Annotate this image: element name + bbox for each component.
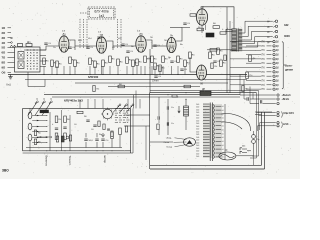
feeder wire y92.7 (150, 92, 257, 94)
antenna zigzag (10, 45, 16, 48)
svg-text:1б0: 1б0 (196, 140, 199, 142)
resistor R23 (217, 48, 220, 55)
resistor R18 (162, 56, 165, 63)
resistor R24 (220, 60, 223, 67)
svg-text:1б0: 1б0 (196, 112, 199, 114)
svg-text:+В/чбс: +В/чбс (282, 98, 290, 101)
output tube V5 (196, 5, 207, 25)
filter choke L3 (184, 106, 189, 116)
resistor R37 in box (34, 130, 36, 136)
power box left edge (149, 93, 151, 170)
tube V4 (167, 33, 176, 52)
ground under switch (8, 75, 12, 79)
svg-text:Кн1: Кн1 (7, 84, 12, 87)
resistor R17 (159, 65, 162, 72)
svg-text:1б0: 1б0 (196, 120, 199, 122)
svg-text:Дп: Дп (225, 150, 228, 152)
svg-text:1б0: 1б0 (196, 123, 199, 125)
wires power corner (247, 150, 251, 152)
brace lower (281, 112, 283, 118)
loop wire under switch (28, 72, 45, 87)
filter capacitor C18 (95, 138, 98, 140)
power box top right corner (255, 111, 272, 113)
power plug (240, 148, 247, 154)
wires in lower box (61, 110, 63, 151)
svg-text:6ЛУ400: 6ЛУ400 (88, 75, 99, 79)
small value labels (53, 23, 224, 60)
wire output tube grid (170, 27, 182, 29)
pilot lamp (219, 152, 236, 160)
terminal row 3 (277, 102, 279, 104)
wire tube V3 anode (146, 40, 152, 49)
svg-text:Rч: Rч (180, 44, 183, 46)
capacitor C5 (121, 43, 124, 45)
resistor R26c right (242, 86, 244, 92)
resistor R43 (224, 55, 226, 61)
capacitor C9 (180, 68, 183, 70)
resistor R13 (136, 59, 139, 66)
wires box to power section (124, 114, 150, 116)
smoothing capacitor C21 (166, 122, 168, 125)
capacitor C10 (213, 60, 216, 62)
svg-text:динам: динам (285, 69, 293, 72)
resistor R1 (43, 58, 46, 65)
dashed leads right (118, 19, 122, 49)
svg-text:Rч: Rч (99, 134, 102, 136)
resistor R8 (102, 60, 105, 67)
output transformer T2 left winding (232, 29, 238, 52)
switch contact field (27, 49, 38, 69)
switch wiper arrows group B (113, 104, 134, 113)
power box bottom (150, 164, 262, 166)
arrow down (178, 106, 180, 113)
wire rectifier plate (190, 57, 197, 72)
resistor R27 in box (55, 116, 58, 123)
band switch S1 box (15, 47, 41, 72)
resistor R2 (51, 60, 54, 67)
svg-text:бб: бб (222, 110, 224, 112)
capacitor C7 (153, 44, 156, 46)
wires up from box corner (133, 95, 135, 108)
svg-text:СЧптп: СЧптп (152, 80, 159, 82)
coil cans on switch top (18, 44, 23, 47)
wire tube V1 anode (69, 40, 75, 50)
svg-text:1б0: 1б0 (196, 134, 199, 136)
capacitor C15 in box (55, 127, 58, 129)
grid wire tube V1 (24, 46, 59, 50)
electrolytic dark in box (61, 136, 64, 142)
fuse F1 (252, 135, 256, 139)
power transformer T1 tint (203, 104, 222, 158)
svg-text:бб: бб (222, 157, 224, 159)
resistor R26b right (246, 72, 249, 79)
wire output tube top cap (202, 7, 234, 29)
resistor R34 on bus4 (184, 85, 191, 88)
coil L4 (28, 112, 32, 119)
filter capacitor C17 (84, 138, 87, 140)
IF can L1 (18, 52, 24, 60)
resistor R3 (56, 61, 59, 68)
svg-text:бб: бб (222, 133, 224, 135)
tube V1 (59, 32, 69, 52)
resistor R20 (184, 60, 187, 67)
svg-text:Включат.: Включат. (45, 156, 49, 167)
wires from band switch right (40, 50, 46, 67)
svg-text:1б0: 1б0 (196, 104, 199, 106)
wire tube V4 grid (152, 45, 167, 47)
lower unit box (23, 108, 131, 150)
capacitor C11 (183, 22, 186, 24)
resistor R6 (89, 58, 92, 65)
svg-text:б32: б32 (284, 23, 289, 27)
resistor R30 (119, 128, 122, 135)
leads into terminal strip (230, 42, 261, 90)
svg-text:1б0: 1б0 (196, 126, 199, 128)
svg-text:1б0: 1б0 (196, 153, 199, 155)
svg-text:1в3: 1в3 (99, 14, 104, 18)
resistor R19 (177, 56, 180, 63)
brace speaker output (282, 42, 284, 90)
resistor R output grid (190, 14, 196, 16)
parts under output tube (197, 28, 204, 31)
resistor R33 hanging (93, 86, 95, 92)
resistor R27b in box (55, 133, 58, 140)
svg-text:Сетка: Сетка (164, 142, 170, 144)
svg-text:1б0: 1б0 (196, 131, 199, 133)
speaker tap terminals (273, 20, 277, 22)
capacitor C16b (93, 124, 96, 126)
terminal row КЗв b (266, 115, 276, 117)
capacitor C12 (154, 75, 157, 77)
resistor R4 (69, 57, 72, 64)
resistor R38 in box (34, 139, 36, 145)
IF can L2 (18, 61, 24, 69)
HT wire down (226, 7, 228, 93)
wire tube V4 anode to output tube grid (176, 28, 190, 42)
svg-text:бб: бб (222, 149, 224, 151)
svg-text:3000: 3000 (284, 34, 290, 38)
antenna terminal marks (11, 37, 13, 43)
resistor R9 (109, 56, 112, 63)
resistor R39 in box (56, 136, 58, 142)
resistor R15 (151, 56, 154, 63)
svg-text:1б0: 1б0 (196, 142, 199, 144)
vertical wire x150 (149, 49, 151, 93)
feeder junction dots (177, 96, 178, 97)
resistor R12 (132, 60, 135, 67)
power transformer T1 secondary (213, 105, 223, 159)
svg-text:бб: бб (222, 137, 224, 139)
vertical bus in box (49, 112, 51, 151)
resistor R14 (144, 56, 147, 63)
wire to magic eye (150, 141, 173, 143)
svg-text:1б0: 1б0 (196, 145, 199, 147)
resistor R36 right in box (125, 126, 127, 132)
svg-text:НЧЗ →: НЧЗ → (284, 123, 292, 126)
svg-text:ЗВО: ЗВО (2, 169, 9, 173)
feeder wire y94.7 (44, 94, 240, 96)
junction dots box bottom (30, 150, 113, 151)
capacitor C22 column (157, 116, 159, 119)
oscillator tube wafer (103, 109, 113, 119)
resistor R11 (126, 57, 129, 64)
svg-text:1б0: 1б0 (196, 109, 199, 111)
feeder wire y97 (52, 96, 240, 98)
svg-text:бб: бб (222, 129, 224, 131)
svg-text:бб: бб (222, 126, 224, 128)
smoothing capacitor C20 (166, 106, 168, 109)
contact arrow rows (32, 115, 47, 144)
resistor R35 column (157, 124, 159, 130)
parts cluster below oscillator (98, 121, 100, 127)
svg-text:КЗв ОЗЧ: КЗв ОЗЧ (284, 112, 294, 115)
magic eye tube V7 (184, 138, 196, 146)
wire bundle down right side (250, 91, 266, 159)
svg-text:6ЛУ403а 1в3: 6ЛУ403а 1в3 (64, 99, 83, 103)
capacitor C6 (126, 50, 129, 52)
svg-text:1б0: 1б0 (196, 148, 199, 150)
feeder wire y90.5 (150, 90, 259, 92)
terminal row Зв (240, 94, 276, 96)
wire tube V3 grid (113, 45, 136, 47)
tube V3 (136, 32, 146, 52)
wires from scale to band switch (11, 48, 15, 68)
rectifier tube V6 (197, 65, 207, 80)
resistor R28 (77, 111, 83, 113)
stepped wires to speaker terminals (242, 21, 273, 47)
resistor R32 on feeder (172, 95, 177, 97)
wire y49.8 right of rectifier (207, 49, 232, 51)
vertical feed wires right (240, 75, 253, 104)
filter capacitor C19 (101, 138, 104, 140)
capacitor C4 (97, 36, 100, 38)
small parts labels in box (52, 116, 102, 136)
capacitor C8 (170, 60, 173, 62)
HT wire 2 (229, 21, 231, 93)
svg-text:бб: бб (222, 141, 224, 143)
svg-text:бб: бб (222, 145, 224, 147)
output transformer T2 tint (232, 29, 242, 52)
terminal row НЧЗ b (266, 125, 276, 127)
vertical drops to bus (44, 66, 186, 75)
bus wire 4 (108, 86, 200, 88)
wire output tube screen (205, 25, 207, 31)
svg-text:1б0: 1б0 (196, 115, 199, 117)
svg-text:ДП: ДП (202, 89, 206, 91)
dashed shield box 6ЛУ400в1в3 (88, 7, 115, 19)
trimmer circle in box (66, 136, 69, 139)
svg-text:бб: бб (222, 106, 224, 108)
resistor R41 (210, 49, 217, 52)
resistor R7 (94, 61, 97, 68)
svg-text:Анод: Анод (167, 137, 173, 140)
resistor R16 (154, 63, 157, 70)
capacitor C1 (44, 42, 47, 44)
S-curve wire 1 (221, 114, 251, 131)
capacitor C14 (260, 100, 262, 103)
svg-text:1б0: 1б0 (196, 118, 199, 120)
resistor R26 right (249, 55, 252, 62)
svg-text:1б0: 1б0 (196, 129, 199, 131)
power transformer T1 primary taps (196, 104, 210, 158)
svg-text:+Вч/нчб: +Вч/нчб (282, 94, 292, 97)
speaker tap row labels (267, 21, 270, 44)
capacitor C16 (86, 119, 89, 121)
svg-text:1б0: 1б0 (196, 151, 199, 153)
power transformer T1 core (209, 103, 211, 162)
svg-text:1б0: 1б0 (196, 107, 199, 109)
switch wiper arrows group A (28, 99, 53, 116)
coil L5 (28, 123, 32, 130)
svg-text:Точност.: Точност. (68, 156, 72, 166)
terminal row НЧЗ a (266, 122, 276, 124)
S-curve wire 2 (221, 122, 242, 129)
svg-text:6ЛУ 400в: 6ЛУ 400в (94, 9, 109, 13)
power box right edge (261, 112, 263, 165)
coil L6 (28, 134, 32, 141)
resistor R40 in box (69, 135, 71, 141)
chassis bus wire (8, 74, 247, 76)
wire output tube cathode down (201, 25, 203, 33)
bus wire 3 (75, 82, 228, 84)
capacitor C3 (86, 46, 89, 48)
trimmer contact field (115, 108, 130, 123)
terminal strip rows (262, 40, 280, 91)
terminal row КЗв a (266, 112, 276, 114)
capacitor C2 (68, 46, 71, 48)
column parts x65 (64, 116, 67, 123)
resistor R31 horizontal dark (200, 91, 211, 96)
resistor R29 (111, 132, 114, 139)
tube V2 (97, 33, 107, 53)
svg-text:Выхо-: Выхо- (285, 65, 293, 68)
resistor R5 (74, 60, 77, 67)
padder trimmer dark (40, 110, 49, 113)
wire tube V2 anode (107, 41, 114, 50)
svg-text:Катод: Катод (167, 147, 173, 149)
svg-text:Сч: Сч (148, 58, 151, 60)
svg-text:мотор: мотор (103, 156, 106, 164)
dashed leads left (80, 13, 88, 49)
resistor R10 (117, 59, 120, 66)
resistor R21 (189, 52, 192, 59)
dial scale labels (2, 26, 12, 75)
capacitor C13 (244, 98, 247, 100)
wire tube V2 grid (75, 45, 97, 47)
resistor R22 (209, 52, 212, 59)
svg-text:Об: Об (2, 70, 6, 74)
vertical drops into box top (79, 99, 81, 108)
wire right of transformer (224, 104, 226, 160)
second bus wire (25, 79, 247, 81)
resistor R25 on bus (118, 85, 125, 88)
scan noise speckle (3, 3, 295, 174)
arrow wire in box (37, 136, 51, 138)
output transformer T2 right winding (239, 29, 242, 50)
svg-text:1б0: 1б0 (196, 156, 199, 158)
svg-text:бб: бб (222, 118, 224, 120)
resistor R42 (211, 63, 213, 69)
